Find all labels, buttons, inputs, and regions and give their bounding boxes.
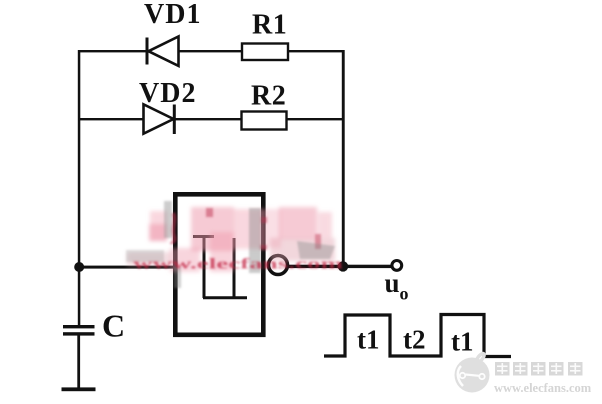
svg-text:t1: t1 (451, 327, 474, 357)
svg-text:t1: t1 (357, 325, 380, 355)
hysteresis symbol (193, 237, 247, 299)
wire row2 to VD2 (78, 118, 144, 120)
svg-text:VD1: VD1 (144, 0, 201, 30)
watermark gray marks (126, 201, 335, 288)
wire VD2 to R2 (175, 118, 242, 120)
node output junction (338, 261, 348, 271)
schmitt trigger U1 box (175, 194, 263, 334)
wire left vertical (78, 50, 81, 327)
label uo (385, 268, 409, 304)
wire output (288, 265, 392, 268)
svg-text:www.elecfans.com: www.elecfans.com (494, 381, 592, 395)
node input junction (74, 262, 84, 272)
svg-text:R2: R2 (251, 81, 286, 112)
inverter bubble (269, 256, 288, 275)
watermark red accents (171, 208, 321, 250)
svg-text:www.elecfans.com: www.elecfans.com (133, 257, 344, 273)
watermark red blobs (127, 207, 335, 272)
watermark gray logo (455, 354, 490, 393)
watermark gray chinese text (495, 362, 583, 376)
capacitor C (62, 325, 96, 391)
resistor R1 (242, 44, 288, 61)
svg-text:VD2: VD2 (139, 78, 196, 109)
terminal uo (392, 261, 402, 271)
svg-text:o: o (400, 284, 409, 304)
wire R1 to right vertical (288, 50, 344, 52)
diode VD2 (144, 104, 176, 134)
wire top row to VD1 (78, 50, 147, 52)
wire R2 to right vertical (287, 118, 344, 120)
wire VD1 to R1 (178, 50, 242, 52)
svg-text:t2: t2 (403, 325, 426, 355)
svg-text:C: C (102, 308, 125, 344)
resistor R2 (242, 112, 287, 130)
wire input (79, 266, 175, 269)
svg-text:R1: R1 (252, 10, 287, 41)
svg-text:u: u (385, 268, 400, 298)
waveform uo (324, 315, 511, 357)
wire right vertical (342, 50, 345, 267)
diode VD1 (146, 37, 179, 66)
